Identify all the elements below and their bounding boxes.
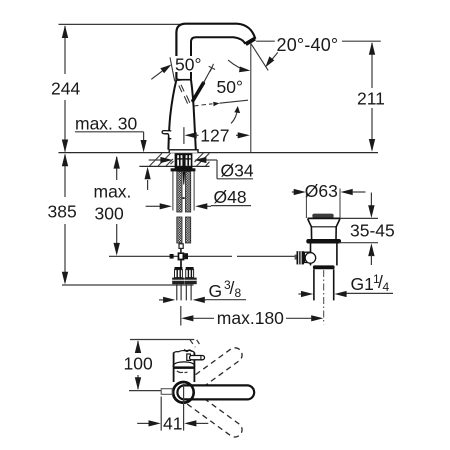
label 50° upper [174, 56, 202, 72]
svg-text:max. 30: max. 30 [75, 114, 138, 134]
dimension 35-45 [339, 193, 378, 266]
svg-text:100: 100 [124, 354, 153, 374]
dimension G1 1/4 arrows [298, 291, 393, 297]
svg-text:G: G [209, 281, 223, 301]
dashed spout swivel lower [182, 389, 245, 440]
arc arrow lever swing (50° lower) [231, 109, 238, 124]
cone sides [308, 219, 312, 239]
mounting nut below counter [171, 168, 196, 171]
body right side [191, 80, 196, 150]
pop-up knob side view [162, 131, 171, 139]
dimension 100 vertical [135, 340, 141, 390]
spout outer curve [176, 24, 255, 80]
spout inner curve [191, 37, 246, 79]
second view of faucet [161, 340, 254, 440]
rod cross fitting at faucet [170, 248, 188, 267]
extension lines Ø63 [305, 189, 307, 219]
svg-text:50°: 50° [217, 77, 243, 97]
hatching right of shank [195, 153, 210, 166]
plug cap [312, 214, 333, 218]
svg-text:385: 385 [48, 202, 77, 222]
svg-text:244: 244 [51, 79, 80, 99]
svg-text:G1: G1 [351, 274, 374, 294]
dimension 385 vertical line [62, 154, 68, 285]
arrow toward lever (50° upper) [151, 71, 163, 80]
dimension Ø63 arrows [292, 189, 366, 195]
arc arrow at spout tip [228, 60, 247, 70]
Ø48 extension lines below nut [172, 172, 174, 211]
counter cross-section [59, 153, 379, 167]
dashed spout swivel upper [182, 345, 245, 396]
wire: bottom reference line (hose end level) [62, 284, 194, 286]
G3/8 nipple tubes [177, 284, 191, 300]
swivel circle [173, 382, 194, 403]
dimension max.180 [181, 306, 324, 326]
dimension 127 [184, 127, 250, 144]
cross marker at lever tip [209, 66, 215, 69]
joystick lever [193, 83, 203, 100]
water stream diagonal [251, 43, 268, 70]
faucet threaded shank through counter [175, 153, 193, 168]
bottom collar [313, 265, 335, 269]
drain pop-up assembly [292, 181, 366, 324]
dimension Ø34 arrows [149, 157, 253, 179]
spout tip extension line [250, 44, 252, 153]
tailpipe [313, 269, 315, 300]
dashed lever lowered position [194, 104, 213, 106]
wire: reference line spout tip to 211 [256, 40, 275, 42]
swivel ring redraw [173, 382, 194, 403]
lip ellipse [173, 362, 195, 367]
body seam line [177, 79, 191, 81]
wire: counter bottom line [139, 165, 209, 167]
handle small marks [184, 350, 192, 352]
svg-text:4: 4 [383, 280, 390, 294]
small connector below hoses [179, 244, 183, 249]
spout outlet face [246, 39, 255, 45]
hex nuts [172, 278, 184, 285]
cap top sketchy outline [174, 350, 195, 352]
body below flange [310, 244, 312, 266]
faucet body side view [151, 24, 255, 153]
dimension 41 [137, 384, 208, 431]
svg-text:Ø34: Ø34 [221, 161, 254, 181]
svg-text:127: 127 [200, 126, 229, 146]
svg-text:41: 41 [163, 414, 182, 434]
svg-text:Ø48: Ø48 [214, 187, 247, 207]
dimension G3/8 arrows [159, 297, 246, 303]
handle lever top view [187, 354, 191, 360]
flexible hoses (braided) upper section [177, 172, 191, 213]
svg-text:max.180: max.180 [217, 308, 284, 328]
knurled knob [297, 251, 305, 264]
base flange [169, 150, 198, 153]
flange top [308, 217, 341, 219]
wire: counter top line [59, 152, 379, 154]
top view: reference line handle level [130, 339, 194, 341]
left knob top view [161, 389, 172, 395]
top view: reference line spout level [129, 390, 172, 392]
svg-text:20°-40°: 20°-40° [277, 35, 339, 55]
shading dashes inside body [179, 85, 190, 104]
svg-text:300: 300 [95, 204, 124, 224]
body left side [168, 80, 176, 150]
rubber seal flange [306, 239, 341, 244]
check valves [172, 267, 197, 284]
dashed handle raised [190, 340, 201, 347]
solid spout capsule [177, 385, 254, 399]
side port [304, 252, 310, 262]
vertical rod below fitting [180, 260, 182, 267]
svg-text:211: 211 [357, 89, 385, 109]
dimension 244 vertical line [62, 25, 68, 152]
hatching left of shank [150, 153, 174, 166]
tailpipe centerline [323, 270, 325, 324]
dimension max.300 vertical line [114, 156, 120, 256]
wire: top reference line (spout top level) [59, 23, 185, 25]
body sides [173, 353, 175, 383]
flexible hoses lower section [177, 217, 191, 243]
shading strokes below band [177, 371, 183, 373]
svg-text:35-45: 35-45 [350, 221, 395, 241]
svg-text:50°: 50° [175, 55, 201, 75]
dimension 211 vertical [369, 42, 375, 152]
svg-text:max.: max. [94, 182, 132, 202]
lever raised reference line [170, 57, 175, 81]
black band [173, 366, 194, 369]
dimension Ø48 arrows [146, 203, 251, 209]
leader arrow from 20°-40° label [272, 52, 278, 60]
pop-up rod horizontal [109, 255, 232, 257]
svg-text:Ø63: Ø63 [305, 181, 338, 201]
svg-text:8: 8 [235, 286, 242, 300]
